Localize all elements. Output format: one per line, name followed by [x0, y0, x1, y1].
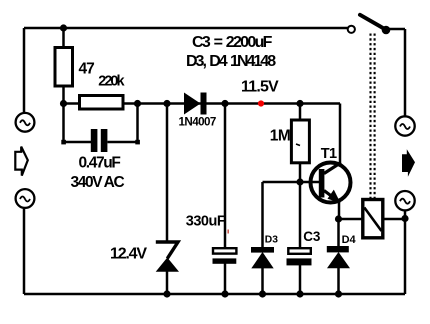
svg-text:D4: D4 — [342, 234, 357, 246]
svg-text:C3: C3 — [303, 229, 321, 244]
svg-text:340V AC: 340V AC — [71, 174, 125, 191]
svg-text:T1: T1 — [321, 146, 337, 162]
svg-text:220k: 220k — [98, 73, 125, 89]
svg-text:D3, D4 1N4148: D3, D4 1N4148 — [186, 53, 276, 70]
svg-text:C3 = 2200uF: C3 = 2200uF — [192, 34, 273, 51]
svg-text:D3: D3 — [265, 234, 278, 245]
svg-text:47: 47 — [79, 61, 95, 78]
svg-text:12.4V: 12.4V — [110, 246, 147, 263]
svg-text:11.5V: 11.5V — [241, 78, 279, 95]
svg-text:1M: 1M — [270, 127, 291, 144]
svg-text:1N4007: 1N4007 — [179, 116, 216, 129]
svg-text:0.47uF: 0.47uF — [79, 155, 121, 172]
svg-text:330uF: 330uF — [186, 213, 226, 229]
